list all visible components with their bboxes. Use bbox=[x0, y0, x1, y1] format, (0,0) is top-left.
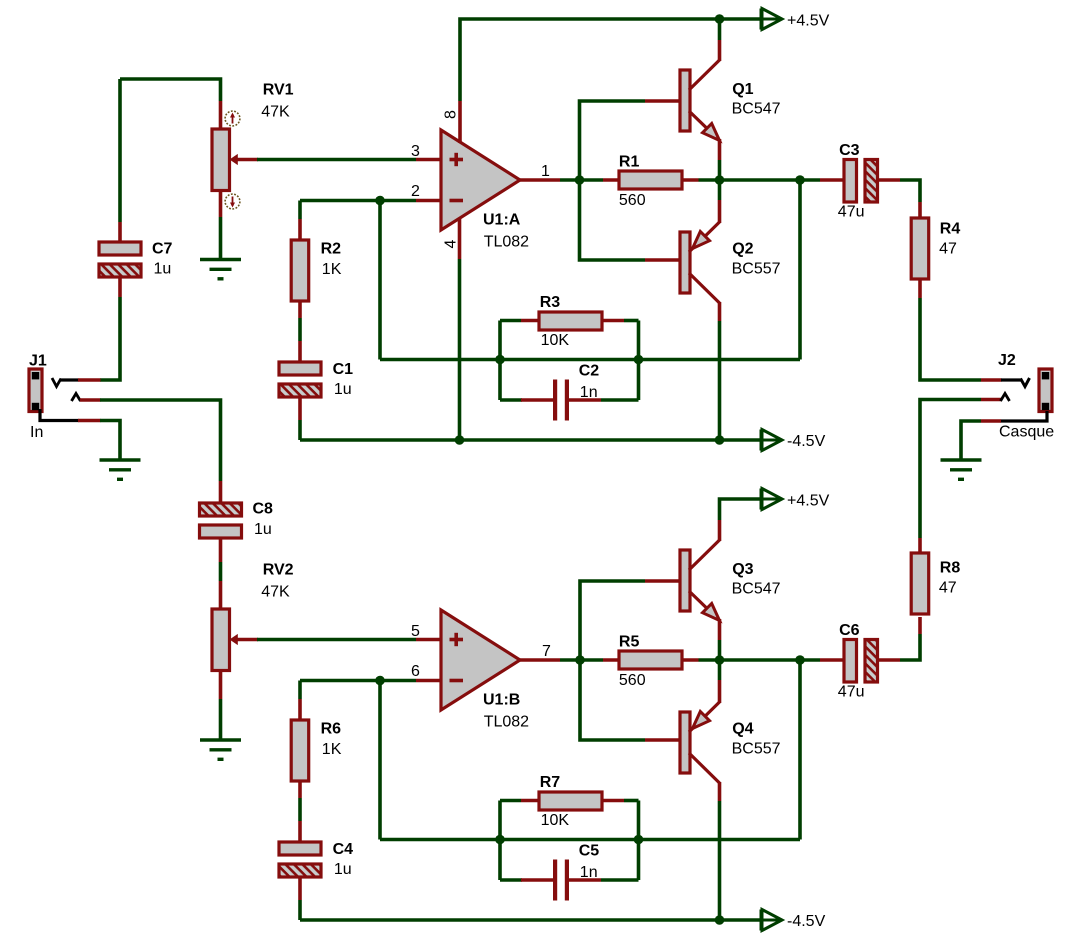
svg-text:10K: 10K bbox=[541, 332, 570, 349]
ground J2 ground bbox=[941, 460, 982, 479]
svg-text:R1: R1 bbox=[619, 154, 640, 171]
wire R5 to emitter node bbox=[699, 658, 720, 662]
capacitor C7 bbox=[99, 242, 141, 277]
junction pin6 / feedback bbox=[375, 676, 385, 686]
svg-text:U1:A: U1:A bbox=[483, 212, 521, 229]
wire Q3 base pin bbox=[645, 579, 681, 583]
svg-text:5: 5 bbox=[411, 623, 420, 640]
wire R1 right pin bbox=[682, 178, 699, 182]
wire RV2 wiper to U1:B pin5 bbox=[257, 638, 416, 642]
svg-text:C4: C4 bbox=[333, 841, 354, 858]
svg-text:-4.5V: -4.5V bbox=[787, 433, 826, 450]
wire box left vertical B bbox=[498, 801, 502, 881]
svg-text:C1: C1 bbox=[333, 361, 354, 378]
svg-text:R6: R6 bbox=[321, 721, 342, 738]
wire Q3 emitter wire bbox=[718, 640, 722, 660]
wire R6 top pin bbox=[298, 699, 302, 720]
wire base bus A bbox=[580, 101, 646, 260]
transistor Q3 bbox=[680, 540, 720, 621]
J1 tip contact bbox=[52, 378, 79, 387]
wire R3 right pin bbox=[602, 319, 624, 323]
svg-text:RV2: RV2 bbox=[263, 562, 294, 579]
wire C1 to -4.5V rail bbox=[298, 420, 302, 440]
svg-text:In: In bbox=[30, 424, 43, 441]
wire U1:B output stub bbox=[520, 658, 560, 662]
wire RV1 to ground bbox=[219, 217, 223, 259]
wire U1:A pin4 to rail bbox=[458, 259, 462, 440]
wire R2-C1 wire bbox=[298, 318, 302, 341]
wire RV1 top pin bbox=[219, 101, 223, 130]
junction feedback left box A bbox=[495, 355, 505, 365]
svg-text:C7: C7 bbox=[152, 241, 173, 258]
svg-text:Q4: Q4 bbox=[732, 721, 753, 738]
wire R1 left pin bbox=[603, 178, 620, 182]
op-amp U1:B bbox=[441, 610, 520, 710]
wire box right vertical B bbox=[637, 801, 641, 881]
capacitor C1 bbox=[279, 362, 321, 397]
svg-text:C5: C5 bbox=[579, 842, 600, 859]
wire Q4 collector pin bbox=[718, 782, 722, 801]
wire Q2 collector pin bbox=[718, 302, 722, 321]
junction +4.5V rail A / Q1 collector bbox=[715, 14, 725, 24]
connector J1 bbox=[29, 369, 42, 412]
wire U1:B output to node bbox=[560, 658, 581, 662]
wire C7 top pin bbox=[118, 222, 122, 243]
wire feedback vertical right B bbox=[798, 660, 802, 840]
wire C5 left wire bbox=[500, 878, 522, 882]
svg-text:47K: 47K bbox=[261, 584, 290, 601]
J2 ring contact bbox=[1001, 394, 1010, 402]
wire node to R1 bbox=[580, 178, 603, 182]
svg-text:1: 1 bbox=[541, 163, 550, 180]
svg-text:Q1: Q1 bbox=[732, 81, 753, 98]
wire C7 top wire bbox=[118, 79, 122, 222]
wire box right vertical A bbox=[637, 321, 641, 401]
junction feedback left box B bbox=[495, 835, 505, 845]
svg-text:R5: R5 bbox=[619, 634, 640, 651]
resistor R4 bbox=[911, 218, 929, 279]
wire Q4 base pin bbox=[645, 738, 681, 742]
wire C6 left wire bbox=[800, 658, 820, 662]
resistor R1 bbox=[619, 171, 682, 189]
wire Q2 emitter wire bbox=[718, 180, 722, 200]
wire Q3 collector pin bbox=[718, 520, 722, 541]
svg-text:R8: R8 bbox=[940, 560, 961, 577]
svg-text:C8: C8 bbox=[253, 501, 274, 518]
wire R5 left pin bbox=[603, 658, 620, 662]
svg-text:47: 47 bbox=[939, 580, 957, 597]
wire C8 bottom pin bbox=[219, 538, 223, 562]
wire feedback vertical right A bbox=[798, 180, 802, 360]
wire J2 sleeve pin bbox=[981, 419, 1001, 423]
wire C7 to J1 tip bbox=[100, 297, 120, 380]
wire C5 right wire bbox=[601, 878, 639, 882]
wire R2 top pin bbox=[298, 219, 302, 240]
svg-text:R2: R2 bbox=[321, 241, 342, 258]
wire -4.5V rail A bbox=[300, 438, 761, 442]
wire RV1 wiper to U1:A pin3 bbox=[257, 158, 416, 162]
svg-text:1u: 1u bbox=[334, 861, 352, 878]
wire Q2 emitter pin bbox=[718, 200, 722, 223]
resistor R2 bbox=[291, 240, 309, 301]
junction pin2 / feedback bbox=[375, 196, 385, 206]
wire R3 left pin bbox=[521, 319, 540, 323]
wire J1 ring pin bbox=[80, 398, 101, 402]
wire +4.5V rail B bbox=[720, 499, 762, 520]
J2 tip contact bbox=[1001, 378, 1030, 387]
wire J1 ring to C8 bbox=[100, 400, 221, 481]
svg-text:560: 560 bbox=[619, 672, 646, 689]
resistor R3 bbox=[539, 312, 602, 330]
wire R7 right wire bbox=[624, 799, 639, 803]
wire -4.5V rail B bbox=[300, 918, 761, 922]
capacitor C6 bbox=[844, 640, 878, 683]
wire C5 left pin bbox=[521, 878, 553, 882]
wire J2 sleeve to ground bbox=[961, 421, 981, 460]
wire U1:A pin4 stub bbox=[458, 218, 462, 259]
wire Q2 base pin bbox=[645, 258, 681, 262]
wire node to R5 bbox=[581, 658, 604, 662]
wire R3 right wire bbox=[624, 319, 639, 323]
wire base bus B bbox=[580, 581, 645, 740]
wire R4 to J2 tip bbox=[920, 298, 981, 380]
wire Q2 collector wire bbox=[718, 321, 722, 440]
wire C4 top pin bbox=[298, 821, 302, 843]
svg-text:Q2: Q2 bbox=[732, 241, 753, 258]
capacitor C8 bbox=[200, 503, 242, 538]
wire R8 top pin bbox=[918, 538, 922, 554]
wire J2 tip pin bbox=[981, 378, 1002, 382]
svg-text:560: 560 bbox=[619, 192, 646, 209]
wire C4 to -4.5V rail bbox=[298, 900, 302, 920]
svg-text:R7: R7 bbox=[540, 774, 561, 791]
svg-text:BC557: BC557 bbox=[732, 261, 781, 278]
svg-text:8: 8 bbox=[443, 110, 460, 119]
wire C6 left pin bbox=[820, 658, 845, 662]
wire feedback horizontal B bbox=[380, 838, 800, 842]
junction emitter node B bbox=[715, 655, 725, 665]
wire C1 bottom pin bbox=[298, 397, 302, 420]
wire C8-RV2 wire bbox=[219, 562, 223, 581]
wire Q1 emitter wire bbox=[718, 160, 722, 180]
wire U1:A output to node bbox=[560, 178, 580, 182]
svg-text:C3: C3 bbox=[839, 142, 860, 159]
wire C4 bottom pin bbox=[298, 877, 302, 900]
svg-text:1K: 1K bbox=[322, 741, 342, 758]
resistor R5 bbox=[619, 651, 682, 669]
svg-text:4: 4 bbox=[443, 240, 460, 249]
connector J2 bbox=[1039, 369, 1052, 412]
wire R6-C4 wire bbox=[298, 798, 302, 821]
svg-text:Q3: Q3 bbox=[732, 561, 753, 578]
power symbol +4.5V B bbox=[761, 489, 782, 510]
wire C7 bottom pin bbox=[118, 277, 122, 297]
junction -4.5V rail A / Q2 collector bbox=[715, 435, 725, 445]
transistor Q2 bbox=[680, 222, 720, 303]
svg-text:R4: R4 bbox=[940, 221, 961, 238]
svg-text:+4.5V: +4.5V bbox=[787, 493, 830, 510]
svg-text:1K: 1K bbox=[322, 261, 342, 278]
svg-text:47K: 47K bbox=[261, 104, 290, 121]
svg-text:BC557: BC557 bbox=[732, 741, 781, 758]
svg-text:-4.5V: -4.5V bbox=[787, 913, 826, 930]
wire +4.5V rail A bbox=[460, 19, 761, 101]
J2 sleeve contact bbox=[1001, 411, 1048, 421]
svg-text:TL082: TL082 bbox=[484, 714, 529, 731]
junction feedback right box B bbox=[634, 835, 644, 845]
wire U1:B pin6 stub bbox=[416, 679, 441, 683]
wire RV2 top pin bbox=[219, 581, 223, 610]
wire Q1 collector pin bbox=[718, 40, 722, 61]
transistor Q4 bbox=[680, 702, 720, 783]
svg-text:1u: 1u bbox=[334, 381, 352, 398]
wire R4 top pin bbox=[918, 202, 922, 219]
svg-text:47u: 47u bbox=[838, 204, 865, 221]
svg-text:U1:B: U1:B bbox=[483, 692, 520, 709]
svg-text:1u: 1u bbox=[254, 521, 272, 538]
wire R5 right pin bbox=[682, 658, 699, 662]
ground RV2 ground bbox=[200, 740, 241, 759]
junction output node A bbox=[575, 175, 585, 185]
wire Q1 emitter pin bbox=[718, 139, 722, 160]
svg-text:C2: C2 bbox=[579, 362, 600, 379]
wire emitter node to C6 node bbox=[720, 658, 801, 662]
wire R3 left wire bbox=[500, 319, 521, 323]
wire C3 left pin bbox=[820, 178, 845, 182]
junction -4.5V rail A / U1 pin4 bbox=[455, 435, 465, 445]
power symbol -4.5V B bbox=[761, 910, 782, 931]
svg-text:R3: R3 bbox=[540, 294, 561, 311]
potentiometer RV1 bbox=[212, 129, 258, 191]
wire U1:A pin8 bbox=[458, 101, 462, 143]
junction emitter node A bbox=[715, 175, 725, 185]
wire feedback vertical left A bbox=[378, 201, 382, 360]
wire R7 left pin bbox=[521, 799, 540, 803]
svg-text:2: 2 bbox=[411, 183, 420, 200]
wire C8 top pin bbox=[219, 481, 223, 504]
svg-text:Casque: Casque bbox=[999, 423, 1054, 440]
wire C2 left pin bbox=[521, 398, 553, 402]
svg-text:47u: 47u bbox=[838, 684, 865, 701]
junction C6 node B bbox=[795, 655, 805, 665]
wire R6 bottom pin bbox=[298, 781, 302, 798]
svg-text:RV1: RV1 bbox=[263, 82, 294, 99]
wire Q1 collector wire bbox=[718, 19, 722, 40]
wire U1:A pin2 stub bbox=[416, 199, 441, 203]
wire Q4 emitter wire bbox=[718, 660, 722, 680]
wire R1 to emitter node bbox=[699, 178, 720, 182]
wire C3 left wire bbox=[800, 178, 820, 182]
svg-text:47: 47 bbox=[939, 240, 957, 257]
wire C6 to R8 bbox=[900, 634, 920, 660]
wire RV2 bottom pin bbox=[219, 671, 223, 700]
wire feedback vertical left B bbox=[378, 681, 382, 840]
wire RV1 top feed bbox=[120, 79, 221, 101]
wire Q1 base pin bbox=[645, 99, 681, 103]
power symbol -4.5V A bbox=[761, 430, 782, 451]
svg-text:+4.5V: +4.5V bbox=[787, 13, 830, 30]
wire U1:B pin5 stub bbox=[416, 638, 441, 642]
wire C3 to R4 bbox=[900, 180, 920, 202]
wire box left vertical A bbox=[498, 321, 502, 401]
rotation indicator top RV1 bbox=[225, 111, 240, 126]
wire R7 left wire bbox=[500, 799, 521, 803]
wire C2 left wire bbox=[500, 398, 522, 402]
resistor R7 bbox=[539, 792, 602, 810]
svg-text:BC547: BC547 bbox=[732, 581, 781, 598]
wire C1 top pin bbox=[298, 341, 302, 363]
junction C3 node A bbox=[795, 175, 805, 185]
svg-text:BC547: BC547 bbox=[732, 101, 781, 118]
resistor R6 bbox=[291, 720, 309, 781]
wire J1 sleeve to ground bbox=[100, 421, 120, 461]
wire Q4 collector wire bbox=[718, 801, 722, 920]
svg-text:C6: C6 bbox=[839, 622, 860, 639]
power symbol +4.5V A bbox=[761, 9, 782, 30]
wire U1:A output stub bbox=[520, 178, 560, 182]
capacitor C3 bbox=[844, 160, 878, 203]
junction -4.5V rail B / Q4 collector bbox=[715, 915, 725, 925]
svg-text:7: 7 bbox=[542, 643, 551, 660]
wire RV1 bottom pin bbox=[219, 191, 223, 218]
wire C5 right pin bbox=[569, 878, 601, 882]
resistor R8 bbox=[911, 553, 929, 614]
wire J2 ring pin bbox=[981, 398, 1002, 402]
wire C6 right pin bbox=[878, 658, 901, 662]
capacitor C5 bbox=[553, 860, 569, 901]
wire U1:A pin2 net bbox=[300, 199, 416, 203]
svg-text:10K: 10K bbox=[541, 812, 570, 829]
svg-text:J2: J2 bbox=[998, 352, 1016, 369]
transistor Q1 bbox=[680, 60, 720, 141]
svg-text:J1: J1 bbox=[29, 353, 47, 370]
potentiometer RV2 bbox=[212, 609, 258, 671]
wire RV2 to ground bbox=[219, 699, 223, 740]
wire C2 right pin bbox=[569, 398, 601, 402]
wire C2 right wire bbox=[601, 398, 639, 402]
junction feedback right box A bbox=[634, 355, 644, 365]
wire R4 bottom pin bbox=[918, 279, 922, 298]
svg-text:3: 3 bbox=[411, 143, 420, 160]
rotation indicator bottom RV1 bbox=[225, 194, 240, 209]
wire C3 right pin bbox=[878, 178, 901, 182]
wire J2 ring wire bbox=[920, 400, 981, 539]
wire R8 bottom pin bbox=[918, 617, 922, 634]
wire R2 bottom pin bbox=[298, 301, 302, 318]
capacitor C4 bbox=[279, 842, 321, 877]
J1 sleeve contact bbox=[40, 409, 79, 421]
wire R6 top wire bbox=[298, 681, 302, 700]
J1 ring contact bbox=[72, 394, 81, 402]
wire R2 top wire bbox=[298, 201, 302, 220]
wire emitter node to C3 node bbox=[720, 178, 801, 182]
op-amp U1:A bbox=[441, 130, 520, 230]
wire U1:B pin6 net bbox=[300, 679, 416, 683]
wire R7 right pin bbox=[602, 799, 624, 803]
capacitor C2 bbox=[553, 380, 569, 421]
junction output node B bbox=[575, 655, 585, 665]
svg-text:TL082: TL082 bbox=[484, 234, 529, 251]
ground RV1 ground bbox=[200, 260, 241, 279]
wire U1:A pin3 stub bbox=[416, 158, 441, 162]
wire J1 tip pin bbox=[78, 378, 101, 382]
wire J1 sleeve pin bbox=[78, 419, 101, 423]
svg-text:1u: 1u bbox=[154, 261, 172, 278]
wire feedback horizontal A bbox=[380, 358, 800, 362]
wire Q4 emitter pin bbox=[718, 680, 722, 703]
wire Q3 emitter pin bbox=[718, 619, 722, 640]
ground J1 ground bbox=[100, 460, 141, 479]
svg-text:6: 6 bbox=[411, 663, 420, 680]
